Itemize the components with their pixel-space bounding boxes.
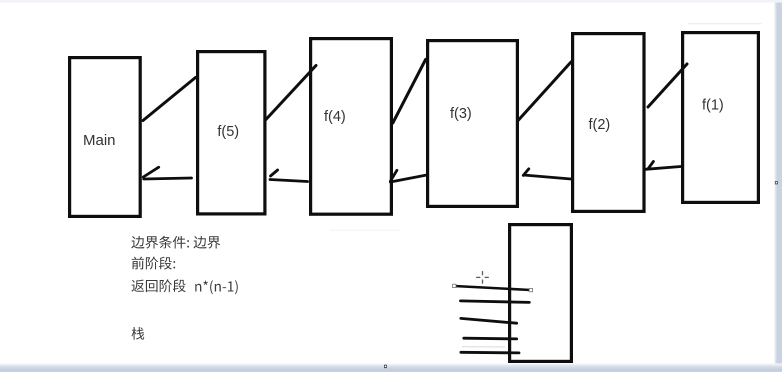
top toolbar edge strip [0, 0, 782, 3]
svg-text:f(1): f(1) [702, 97, 724, 113]
svg-text:f(3): f(3) [450, 106, 472, 122]
stack line 1 left handle [453, 284, 456, 287]
return arrow f3 to f4 shaft [390, 175, 427, 182]
box f2 [573, 34, 644, 212]
svg-text:f(2): f(2) [589, 117, 611, 133]
return arrow f5 to Main shaft [144, 178, 192, 179]
faint smudge below f4 [330, 230, 400, 231]
return arrow f3 to f4 head [391, 170, 397, 181]
cjk line2 qianjieduan [132, 257, 176, 270]
stack line 1 selected [455, 286, 531, 290]
svg-text:Main: Main [83, 132, 116, 149]
faint smudge top right [688, 23, 762, 25]
cjk line1 bianjietiaojian [131, 236, 220, 249]
stack box [510, 225, 572, 362]
call arrow f2 to f1 [648, 64, 687, 107]
box f4 [311, 39, 392, 215]
cjk line3 fanhuijieduan [131, 279, 185, 292]
cjk line4 zhan [132, 327, 145, 340]
bottom scrollbar [0, 363, 782, 372]
svg-text:f(4): f(4) [324, 109, 346, 125]
box f5 [198, 52, 265, 214]
stack line 1 right handle [529, 288, 532, 291]
call arrow f5 to f4 [265, 66, 316, 121]
bottom bar dot [384, 365, 387, 368]
call arrow f4 to f3 [393, 60, 426, 124]
scrollbar notch [775, 181, 778, 184]
box Main [70, 58, 141, 217]
stack line 5 [461, 351, 519, 354]
stack line 3 [461, 318, 517, 323]
return arrow f5 to Main head [143, 167, 158, 177]
call arrow f3 to f2 [519, 62, 572, 120]
svg-text:f(5): f(5) [217, 124, 239, 140]
crosshair cursor [476, 271, 489, 284]
return arrow f1 to f2 shaft [645, 167, 681, 170]
latin n*(n-1) [195, 280, 238, 294]
return arrow f4 to f5 shaft [270, 180, 308, 182]
return arrow f2 to f3 shaft [524, 175, 572, 179]
faint stack line ghost [462, 346, 505, 348]
return arrow f1 to f2 head [648, 162, 654, 169]
stack line 4 [464, 337, 517, 340]
return arrow f4 to f5 head [271, 170, 278, 176]
call arrow Main to f5 [143, 78, 196, 121]
return arrow f2 to f3 head [523, 169, 529, 176]
box f3 [428, 41, 518, 207]
stack line 2 [461, 301, 530, 303]
right scrollbar [774, 3, 782, 367]
box f1 [683, 33, 759, 203]
